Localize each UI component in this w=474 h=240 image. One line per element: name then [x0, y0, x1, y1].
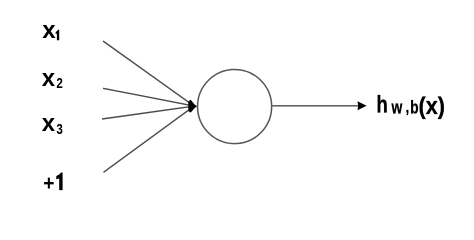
input arrowhead at neuron: [188, 100, 197, 113]
svg-text:2: 2: [56, 75, 62, 92]
output wire: [272, 105, 359, 107]
neuron circle: [198, 70, 272, 144]
svg-text:x: x: [42, 17, 56, 44]
bias label +1: [43, 172, 62, 195]
wire from x1: [103, 41, 194, 106]
svg-text:w: w: [391, 98, 403, 118]
svg-text:x: x: [42, 65, 56, 92]
wire from +1: [104, 107, 194, 173]
wire from x2: [103, 88, 194, 106]
svg-text:x: x: [42, 110, 56, 137]
wire from x3: [102, 106, 194, 119]
output label h_w,b(x): [376, 91, 445, 119]
output arrowhead: [358, 101, 367, 110]
svg-text:3: 3: [56, 121, 62, 138]
svg-text:b: b: [410, 98, 418, 118]
svg-text:(x): (x): [419, 92, 445, 119]
input label x3: [42, 110, 63, 137]
input label x1: [42, 17, 59, 44]
svg-text:,: ,: [406, 98, 410, 117]
svg-text:h: h: [376, 91, 387, 118]
input label x2: [42, 65, 63, 92]
svg-text:+: +: [43, 172, 54, 195]
